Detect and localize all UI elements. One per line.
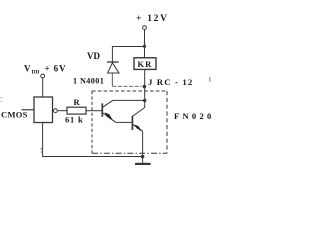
transistor Q2 collector <box>132 107 145 116</box>
junction node emitter/ground bus <box>141 155 145 159</box>
CMOS label <box>1 110 34 120</box>
svg-text:V: V <box>24 64 31 74</box>
power label +12V <box>136 14 169 24</box>
diode label VD <box>87 51 100 61</box>
wire Vdd to CMOS box <box>42 78 44 97</box>
transistor Q2 emitter with arrow <box>133 125 143 132</box>
wire relay to collector rail <box>144 69 146 107</box>
terminal +12V <box>143 26 147 30</box>
scan speckles <box>0 77 211 153</box>
transistor Q1 base bar <box>101 103 103 116</box>
svg-text:J RC - 12: J RC - 12 <box>148 77 193 87</box>
wire bubble to resistor <box>57 110 67 112</box>
svg-text:CMOS: CMOS <box>1 110 28 120</box>
transistor Q2 base bar <box>131 116 133 130</box>
wire diode anode down <box>111 74 113 87</box>
junction node diode/rail <box>143 85 147 89</box>
CMOS gate box U1 <box>34 97 53 123</box>
svg-text:FN020: FN020 <box>174 111 215 121</box>
resistor designator R <box>74 97 81 107</box>
wire +12V to relay <box>144 30 146 58</box>
svg-text:1 N4001: 1 N4001 <box>73 77 104 86</box>
svg-text:61 k: 61 k <box>65 115 84 125</box>
ground <box>135 163 151 165</box>
resistor value 61k <box>65 115 84 125</box>
terminal Vdd <box>41 74 45 78</box>
diode part label 1N4001 <box>73 77 104 86</box>
junction node diode branch top <box>143 45 146 48</box>
svg-text:+ 6V: + 6V <box>45 64 67 74</box>
transistor Q1 collector <box>102 100 144 107</box>
supply label Vdd+6V <box>24 64 66 76</box>
svg-text:DD: DD <box>32 70 40 76</box>
wire Q2 emitter down to ground <box>142 131 144 164</box>
wire resistor to Q1 base <box>86 110 102 112</box>
svg-text:R: R <box>74 97 81 107</box>
relay coil KR <box>134 58 156 70</box>
relay type label JRC-12 <box>148 77 193 87</box>
junction node collector rail <box>143 99 146 102</box>
resistor R <box>67 107 86 114</box>
wire diode anode to rail <box>112 85 142 87</box>
module label FN020 <box>174 111 215 121</box>
Darlington module dashed box <box>92 91 167 153</box>
svg-text:KR: KR <box>138 59 153 69</box>
wire CMOS Vss to ground bus <box>43 123 143 157</box>
diode VD <box>107 62 119 73</box>
svg-text:VD: VD <box>87 51 100 61</box>
output bubble <box>54 109 58 113</box>
transistor Q1 emitter with arrow <box>102 112 132 122</box>
wire to diode cathode <box>112 47 144 62</box>
svg-text:+ 12V: + 12V <box>136 14 169 24</box>
